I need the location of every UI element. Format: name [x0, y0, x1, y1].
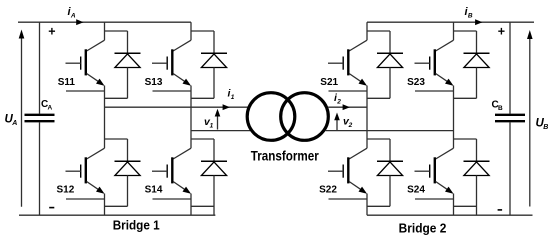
- wire bottom node of S22: [367, 205, 390, 207]
- antiparallel diode of S22: [377, 139, 403, 176]
- wire leg 2 lower segment bridge 1: [190, 194, 192, 216]
- svg-text:S12: S12: [57, 185, 75, 196]
- transformer primary winding: [247, 93, 295, 141]
- antiparallel diode of S14: [201, 139, 227, 176]
- label i1: [228, 87, 235, 101]
- svg-text:B: B: [543, 124, 548, 131]
- wire bottom rail bridge 1: [19, 214, 215, 216]
- label iB: [465, 6, 473, 20]
- svg-text:B: B: [468, 13, 473, 20]
- wire top node of S23: [454, 30, 477, 32]
- wire top rail bridge 2: [367, 21, 534, 23]
- wire diode anode lead of S11: [127, 68, 129, 99]
- antiparallel diode of S11: [115, 31, 141, 68]
- capacitor CA upper lead: [39, 22, 41, 114]
- wire leg 1 lower segment bridge 1: [104, 194, 106, 216]
- antiparallel diode of S23: [464, 31, 490, 68]
- wire leg 2 lower segment bridge 2: [453, 194, 455, 216]
- wire top node of S24: [454, 138, 477, 140]
- svg-text:Transformer: Transformer: [251, 149, 320, 164]
- wire diode anode lead of S23: [476, 68, 478, 99]
- IGBT S13: [152, 40, 191, 91]
- antiparallel diode of S13: [201, 31, 227, 68]
- svg-text:+: +: [498, 25, 505, 39]
- label + bridge 1 bus: [48, 25, 55, 39]
- IGBT S14: [152, 148, 191, 199]
- wire top node of S11: [105, 30, 128, 32]
- wire leg 1 middle segment bridge 2: [366, 86, 368, 149]
- current arrow iA: [76, 19, 83, 25]
- current arrow i1: [223, 104, 230, 110]
- antiparallel diode of S24: [464, 139, 490, 176]
- svg-text:S23: S23: [407, 77, 425, 88]
- antiparallel diode of S21: [377, 31, 403, 68]
- wire leg 1 middle segment bridge 1: [104, 86, 106, 149]
- current arrow i2: [343, 104, 350, 110]
- svg-text:1: 1: [210, 123, 214, 130]
- wire diode anode lead of S24: [476, 176, 478, 216]
- wire top node of S21: [367, 30, 390, 32]
- svg-text:2: 2: [348, 122, 353, 129]
- voltage arrow v2: [334, 113, 340, 131]
- wire leg 2 middle segment bridge 2: [453, 86, 455, 149]
- capacitor CA lower lead: [39, 122, 41, 215]
- label S12: [57, 185, 75, 196]
- wire diode anode lead of S12: [127, 176, 129, 207]
- capacitor CB upper lead: [509, 22, 511, 114]
- svg-text:1: 1: [231, 94, 235, 101]
- label - bridge 2 bus: [498, 209, 503, 211]
- svg-text:A: A: [48, 105, 53, 112]
- label Bridge 1: [113, 218, 160, 233]
- label CA: [41, 99, 53, 112]
- label + bridge 2 bus: [498, 25, 505, 39]
- wire leg 2 upper stub bridge 1: [190, 22, 192, 40]
- capacitor CB: [495, 115, 525, 121]
- svg-text:A: A: [11, 120, 17, 127]
- label S22: [319, 185, 337, 196]
- label S21: [320, 77, 338, 88]
- label S24: [407, 185, 425, 196]
- label S14: [145, 185, 163, 196]
- label i2: [334, 92, 341, 106]
- wire top node of S22: [367, 138, 390, 140]
- wire diode anode lead of S22: [389, 176, 391, 207]
- wire diode anode lead of S13: [213, 68, 215, 99]
- wire leg 2 upper stub bridge 2: [453, 22, 455, 40]
- wire diode anode lead of S21: [389, 68, 391, 99]
- wire bottom node of S14: [191, 205, 214, 207]
- svg-text:S22: S22: [319, 185, 337, 196]
- IGBT S11: [66, 40, 105, 91]
- wire leg 1 lower segment bridge 2: [366, 194, 368, 216]
- label UA: [5, 114, 18, 128]
- wire diode anode lead of S14: [213, 176, 215, 216]
- IGBT S23: [415, 40, 454, 91]
- svg-text:S13: S13: [145, 77, 163, 88]
- wire bottom node of S24: [454, 205, 477, 207]
- label Transformer: [251, 149, 320, 164]
- wire bottom node of S23: [454, 97, 477, 99]
- svg-text:2: 2: [336, 99, 341, 106]
- wire leg 1 upper stub bridge 2: [366, 22, 368, 40]
- wire leg 1 upper stub bridge 1: [104, 22, 106, 40]
- label UB: [536, 118, 549, 132]
- label Bridge 2: [399, 220, 447, 235]
- wire bottom rail bridge 2: [367, 214, 533, 216]
- svg-text:+: +: [48, 25, 55, 39]
- wire top node of S13: [191, 30, 214, 32]
- IGBT S21: [328, 40, 367, 91]
- wire top rail bridge 1: [18, 21, 191, 23]
- label - bridge 1 bus: [49, 207, 54, 209]
- svg-text:S11: S11: [58, 77, 76, 88]
- label S13: [145, 77, 163, 88]
- svg-text:S24: S24: [407, 185, 425, 196]
- DC source voltage arrow UB: [527, 30, 533, 207]
- wire top node of S14: [191, 138, 214, 140]
- svg-text:S21: S21: [320, 77, 338, 88]
- voltage arrow v1: [215, 109, 221, 130]
- IGBT S12: [66, 148, 105, 199]
- wire bottom node of S11: [105, 97, 128, 99]
- capacitor CB lower lead: [509, 122, 511, 215]
- svg-text:Bridge 1: Bridge 1: [113, 218, 160, 233]
- wire bottom node of S21: [367, 97, 390, 99]
- label iA: [68, 6, 76, 20]
- transformer secondary winding: [281, 93, 329, 141]
- antiparallel diode of S12: [115, 139, 141, 176]
- label v2: [343, 116, 353, 130]
- DC source voltage arrow UA: [19, 30, 25, 207]
- current arrow iB: [475, 19, 482, 25]
- wire bottom node of S13: [191, 97, 214, 99]
- label v1: [204, 116, 214, 130]
- IGBT S22: [328, 148, 367, 199]
- wire leg 2 middle segment bridge 1: [190, 86, 192, 149]
- svg-text:S14: S14: [145, 185, 163, 196]
- label CB: [492, 100, 504, 113]
- label S11: [58, 77, 76, 88]
- svg-text:B: B: [498, 105, 503, 112]
- wire bottom node of S12: [105, 205, 128, 207]
- svg-text:Bridge 2: Bridge 2: [399, 220, 447, 235]
- capacitor CA: [25, 115, 55, 121]
- wire primary terminal 1 (bridge 1 leg 1 to transformer): [105, 106, 248, 108]
- wire secondary terminal 1 (transformer to bridge 2 leg 1): [328, 106, 367, 108]
- label S23: [407, 77, 425, 88]
- wire primary terminal 2 (bridge 1 leg 2 to transformer): [191, 130, 250, 132]
- wire top node of S12: [105, 138, 128, 140]
- IGBT S24: [415, 148, 454, 199]
- wire secondary terminal 2 (transformer to bridge 2 leg 2): [326, 130, 454, 132]
- svg-text:A: A: [70, 13, 76, 20]
